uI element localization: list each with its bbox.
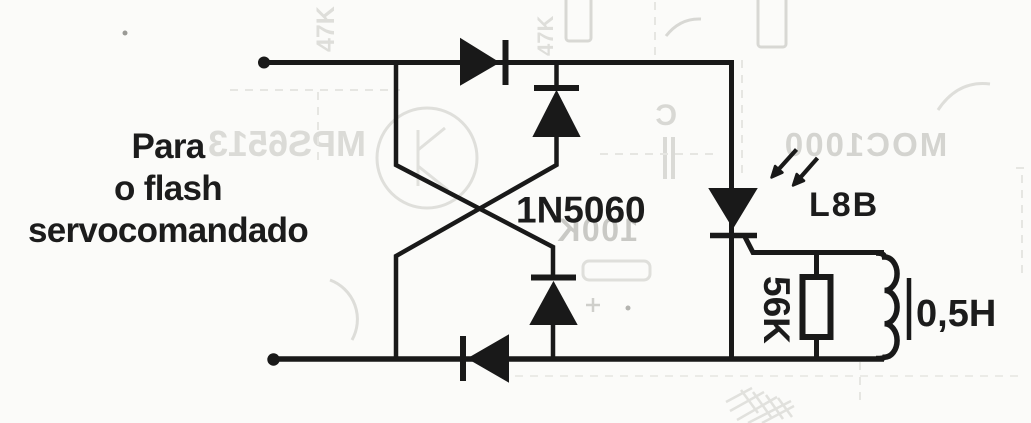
- svg-text:56K: 56K: [756, 276, 797, 344]
- svg-text:47K: 47K: [533, 16, 558, 56]
- svg-text:0,5H: 0,5H: [916, 293, 996, 335]
- svg-text:MOC1000: MOC1000: [783, 126, 947, 163]
- svg-text:1N5060: 1N5060: [516, 190, 646, 231]
- svg-text:47K: 47K: [312, 6, 340, 52]
- svg-text:Para: Para: [131, 127, 205, 166]
- svg-text:C: C: [655, 99, 677, 132]
- svg-text:servocomandado: servocomandado: [28, 211, 308, 250]
- svg-text:MPS6513: MPS6513: [208, 123, 366, 164]
- svg-text:L8B: L8B: [809, 186, 879, 224]
- svg-text:o flash: o flash: [114, 169, 222, 208]
